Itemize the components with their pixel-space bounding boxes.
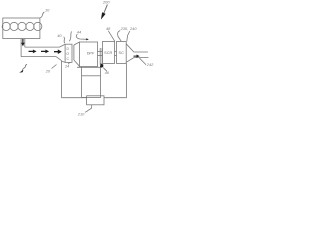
injector blob bbox=[100, 63, 104, 67]
outlet flow arrow bbox=[134, 55, 140, 58]
flow arrow down from engine bbox=[21, 39, 24, 46]
injector tube right wall bbox=[101, 48, 103, 64]
cylinder 1 bbox=[2, 22, 10, 30]
DOC outlet cone top bbox=[74, 42, 80, 45]
svg-text:SCR: SCR bbox=[104, 51, 112, 55]
DPF box bbox=[80, 42, 98, 67]
pipe SCR to ASC top bbox=[115, 50, 117, 52]
outlet leader bbox=[140, 58, 147, 65]
pipe SCR to ASC bottom bbox=[115, 54, 117, 56]
cylinder 3 bbox=[18, 22, 26, 30]
bottom line left bbox=[62, 97, 87, 99]
cylinder 2 bbox=[10, 22, 18, 30]
outlet cone top bbox=[126, 44, 148, 52]
leader to label 10 bbox=[40, 12, 44, 18]
big arrow 200 head bbox=[101, 12, 106, 19]
flow arrow 3 into DOC bbox=[54, 49, 62, 54]
svg-text:200: 200 bbox=[102, 0, 110, 5]
DOC outlet wall bbox=[73, 45, 75, 60]
exhaust pipe bottom wall bbox=[21, 57, 61, 61]
ASC box bbox=[117, 42, 127, 64]
exhaust pipe top wall bbox=[25, 44, 65, 47]
svg-text:SC: SC bbox=[119, 51, 125, 55]
svg-text:240: 240 bbox=[129, 26, 137, 31]
pump box bbox=[87, 96, 104, 105]
leader for label 20 bbox=[52, 65, 57, 69]
engine block bbox=[3, 18, 40, 39]
leader 44 arrowhead bbox=[86, 38, 89, 40]
downpipe wall right bbox=[24, 39, 26, 48]
leader 240 line bbox=[127, 31, 130, 41]
cylinder 5 bbox=[34, 22, 42, 30]
leader 230 curl bbox=[118, 31, 122, 42]
svg-text:O: O bbox=[66, 52, 69, 56]
big arrow 200 shaft bbox=[104, 5, 108, 14]
tank left riser bbox=[81, 67, 83, 76]
svg-text:242: 242 bbox=[146, 62, 154, 67]
pipe DPF to SCR top bbox=[98, 50, 103, 52]
svg-text:DPF: DPF bbox=[87, 52, 95, 56]
svg-text:20: 20 bbox=[45, 68, 51, 73]
leader for label 46 injector bbox=[103, 68, 107, 72]
pump bottom leader squiggle bbox=[85, 105, 92, 113]
flow arrow 2 in pipe bbox=[41, 50, 49, 54]
svg-text:210: 210 bbox=[77, 111, 85, 116]
DOC box bbox=[65, 44, 72, 62]
tank right riser bbox=[100, 67, 102, 76]
downpipe wall left bbox=[20, 39, 22, 57]
leader S for label 42 bbox=[69, 32, 72, 42]
leader 12 arrowhead bbox=[19, 70, 23, 73]
flow arrow 1 in pipe bbox=[29, 50, 37, 54]
leader 12 squiggle bbox=[22, 64, 27, 71]
leader for label 24 bbox=[68, 63, 69, 65]
bottom line right bbox=[104, 97, 127, 99]
leader for label 48 bbox=[108, 31, 115, 42]
right return vertical bbox=[126, 64, 128, 98]
DOC outlet cone bottom bbox=[74, 60, 80, 66]
injector tube left wall bbox=[99, 48, 101, 65]
tank box bbox=[82, 76, 101, 98]
SCR box bbox=[103, 42, 115, 64]
left return vertical bbox=[61, 61, 63, 98]
pipe DPF to SCR bottom bbox=[98, 54, 103, 56]
svg-text:230,: 230, bbox=[120, 26, 129, 31]
line under DPF bbox=[77, 66, 102, 68]
svg-text:24: 24 bbox=[64, 64, 70, 69]
outlet cone bottom bbox=[126, 58, 148, 63]
inlet cone bottom bridge bbox=[62, 61, 66, 62]
leader for label 40 bbox=[64, 37, 65, 43]
cylinder 4 bbox=[26, 22, 34, 30]
leader arc 44 to DPF bbox=[76, 34, 87, 39]
